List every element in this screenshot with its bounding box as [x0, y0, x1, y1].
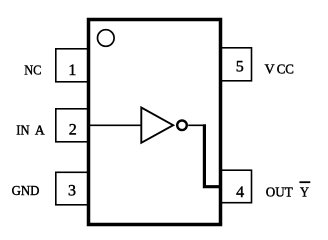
svg-text:OUT: OUT — [266, 185, 293, 200]
svg-text:3: 3 — [68, 183, 76, 200]
svg-text:5: 5 — [236, 59, 244, 76]
svg-text:2: 2 — [69, 121, 77, 138]
svg-text:A: A — [35, 123, 46, 138]
inverter gate U1 triangle — [141, 108, 173, 143]
svg-text:IN: IN — [16, 123, 29, 138]
wire: pin 2 to inverter input — [89, 124, 142, 126]
inverter output bubble — [177, 121, 187, 131]
wire: bubble to corner — [188, 124, 206, 126]
pin 3 box — [56, 172, 89, 205]
pin-1 indicator dot — [98, 30, 115, 47]
pin 4 box — [220, 170, 252, 203]
svg-text:1: 1 — [68, 62, 76, 79]
svg-text:NC: NC — [24, 63, 41, 78]
pin 5 box — [220, 48, 252, 81]
overline over Y — [299, 181, 310, 183]
wire: vertical and bottom run to pin 4 — [204, 124, 222, 187]
svg-text:Y: Y — [300, 185, 309, 200]
IC body U1 — [89, 20, 221, 225]
svg-text:GND: GND — [12, 184, 40, 199]
svg-text:4: 4 — [236, 184, 244, 201]
pin 2 box — [56, 109, 89, 142]
svg-text:CC: CC — [277, 62, 294, 77]
pin 1 box — [56, 49, 89, 82]
svg-text:V: V — [265, 62, 275, 77]
